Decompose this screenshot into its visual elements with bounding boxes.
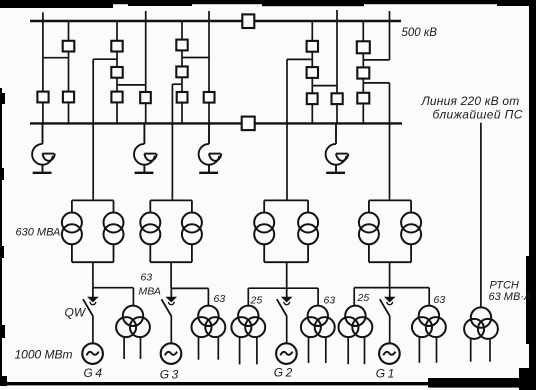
wire: T2 LV drop bbox=[286, 262, 288, 288]
transformer T1 group bbox=[359, 200, 421, 262]
breaker Q6 (col C bottom) bbox=[111, 92, 122, 103]
wire: col C seg3 bbox=[116, 78, 118, 92]
wire: col B to lower bus bbox=[68, 102, 70, 123]
wire: col C seg2 bbox=[116, 52, 118, 68]
generator G3 bbox=[161, 343, 182, 364]
wire: 220 kV line from nearest substation bbox=[480, 123, 482, 307]
transformer T3 group bbox=[140, 200, 202, 262]
switch QW of G2 bbox=[277, 299, 287, 316]
breaker Q12 (col G top) bbox=[307, 41, 318, 52]
breaker QB2 (lower bus tie) bbox=[242, 117, 255, 131]
wire: col G from upper bus bbox=[311, 21, 313, 41]
transformer T8 (63 MVA unit aux of G2) bbox=[301, 306, 335, 363]
breaker Q15 (col H) bbox=[332, 93, 343, 104]
wire: T3 HV feeder bbox=[171, 84, 173, 200]
svg-text:1000 МВт: 1000 МВт bbox=[15, 348, 73, 362]
wire: G1 stem bbox=[389, 316, 391, 343]
wire: G3 tap to aux transformer bbox=[171, 287, 208, 289]
transformer T10 (63 MVA unit aux of G1) bbox=[412, 306, 446, 363]
wire: col G to lower bus bbox=[311, 104, 313, 123]
wire: tie I-K at y60 bbox=[363, 59, 389, 61]
wire: col G seg3 bbox=[311, 78, 313, 93]
breaker Q16 (col I top) bbox=[357, 41, 370, 53]
wire: T2 HV feeder bbox=[286, 59, 288, 200]
wire: G3 stem bbox=[170, 316, 172, 343]
svg-text:Линия 220 кВ от: Линия 220 кВ от bbox=[421, 94, 520, 108]
transformer T5 (63 MVA unit aux of G4) bbox=[116, 306, 150, 359]
wire: col D to lower bus bbox=[145, 103, 147, 123]
svg-text:25: 25 bbox=[357, 292, 370, 304]
wire: tap to T3 from col E bbox=[172, 83, 182, 85]
wire: T4 HV feeder bbox=[92, 59, 94, 200]
wire: G2 taps to aux transformers bbox=[248, 287, 318, 289]
wire: tie A-B at y58 bbox=[43, 57, 69, 59]
wire: tap to T1 from col I bbox=[363, 82, 389, 84]
wire: col I from upper bus bbox=[362, 21, 364, 41]
transformer T7 (25 MVA unit aux of G2) bbox=[231, 306, 265, 365]
wire: col G seg2 bbox=[311, 52, 313, 67]
breaker Q4 (col C top) bbox=[111, 41, 122, 52]
transformer T9 (25 MVA unit aux of G1) bbox=[339, 306, 373, 365]
wire: G4 stem bbox=[92, 316, 94, 343]
transformer T6 (63 MVA unit aux of G3) bbox=[192, 306, 226, 360]
wire: T3 LV drop bbox=[170, 262, 172, 288]
breaker QB1 (upper bus tie) bbox=[242, 14, 254, 28]
breaker Q2 (col B bottom) bbox=[63, 92, 74, 103]
wire: aux T6 feeder drop bbox=[207, 288, 209, 305]
arrester F2 with ground bbox=[134, 123, 157, 172]
svg-text:ближайшей ПС: ближайшей ПС bbox=[433, 107, 523, 121]
wire: aux T5 feeder drop bbox=[132, 288, 134, 306]
svg-text:G4: G4 bbox=[84, 366, 105, 380]
wire: tap to T2 from col G bbox=[287, 58, 312, 60]
wire: col C from upper bus bbox=[116, 21, 118, 41]
svg-text:63: 63 bbox=[324, 294, 336, 306]
svg-text:63: 63 bbox=[141, 272, 153, 284]
transformer T4 group (2x630/2 MVA units) bbox=[62, 200, 124, 262]
node: G1 junction arrow bbox=[385, 288, 394, 305]
svg-text:63: 63 bbox=[434, 294, 446, 306]
breaker Q10 (col E bottom) bbox=[177, 92, 188, 103]
svg-text:G1: G1 bbox=[376, 367, 397, 381]
breaker Q18 (col I bottom) bbox=[357, 93, 369, 104]
generator G2 bbox=[276, 343, 297, 364]
svg-text:63 МВ·А: 63 МВ·А bbox=[489, 291, 532, 303]
wire: col E seg3 bbox=[181, 77, 183, 92]
wire: T1 HV feeder bbox=[389, 83, 391, 200]
wire: col A lower bbox=[42, 102, 44, 123]
svg-text:500 кВ: 500 кВ bbox=[402, 27, 438, 39]
wire: line L4 drop (col H) bbox=[336, 10, 338, 93]
node: G2 junction arrow bbox=[282, 288, 291, 305]
wire: col H to lower bus bbox=[336, 104, 338, 123]
svg-text:QW: QW bbox=[65, 306, 87, 320]
wire: tie E-F at y57 bbox=[182, 57, 209, 59]
wire: col I seg3 bbox=[362, 79, 364, 93]
wire: tie C-D at y85 bbox=[117, 84, 146, 86]
wire: T1 LV drop bbox=[389, 262, 391, 287]
breaker Q3 (col A) bbox=[37, 92, 48, 103]
breaker Q5 (col C mid) bbox=[111, 67, 122, 78]
node: G3 junction arrow bbox=[167, 288, 176, 304]
wire: upper 500 kV busbar W1 bbox=[30, 20, 401, 22]
wire: tap to T4 from col C bbox=[93, 58, 117, 60]
transformer T11 (RTSN 63 MVA reserve aux) bbox=[464, 307, 498, 361]
svg-text:G3: G3 bbox=[160, 367, 181, 381]
wire: col E seg2 bbox=[181, 50, 183, 66]
wire: col B from upper bus bbox=[68, 21, 70, 41]
wire: col E from upper bus bbox=[181, 21, 183, 40]
svg-text:25: 25 bbox=[250, 295, 263, 307]
wire: col B middle bbox=[68, 52, 70, 92]
wire: G2 stem bbox=[286, 316, 288, 343]
wire: line L2 drop (col D) bbox=[145, 11, 147, 92]
wire: tie G-H at y86 bbox=[312, 85, 337, 87]
wire: G1 taps to aux transformers bbox=[354, 287, 429, 289]
breaker Q17 (col I mid) bbox=[357, 67, 369, 78]
svg-text:МВА: МВА bbox=[139, 285, 161, 297]
switch QW of G4 bbox=[83, 299, 93, 316]
wire: aux T7 feeder drop bbox=[247, 288, 249, 306]
generator G1 bbox=[379, 343, 400, 364]
breaker Q13 (col G mid) bbox=[307, 67, 318, 78]
wire: line L5 drop (col K upper) bbox=[389, 11, 391, 60]
svg-text:G2: G2 bbox=[274, 366, 295, 380]
wire: col E to lower bus bbox=[181, 103, 183, 124]
switch QW of G3 bbox=[161, 299, 171, 316]
breaker Q14 (col G bottom) bbox=[307, 93, 318, 104]
breaker Q8 (col E top) bbox=[176, 40, 187, 51]
breaker Q9 (col E mid) bbox=[176, 67, 187, 78]
breaker Q7 (col D) bbox=[140, 92, 151, 103]
wire: lower 500 kV busbar W2 bbox=[30, 122, 402, 124]
svg-text:630 МВА: 630 МВА bbox=[16, 227, 61, 239]
wire: col I to lower bus bbox=[362, 104, 364, 124]
arrester F4 with ground bbox=[326, 123, 349, 172]
wire: col F to lower bus bbox=[208, 103, 210, 124]
wire: T4 LV drop bbox=[92, 262, 94, 288]
wire: aux T8 feeder drop bbox=[317, 288, 319, 306]
node: G4 junction arrow bbox=[88, 288, 97, 305]
wire: aux T9 feeder drop bbox=[353, 288, 355, 307]
transformer T2 group bbox=[254, 200, 318, 262]
wire: line L1 drop (col A upper) bbox=[42, 12, 44, 91]
svg-text:РТСН: РТСН bbox=[490, 279, 519, 291]
breaker Q1 (col B top) bbox=[63, 41, 75, 52]
wire: col C to lower bus bbox=[116, 102, 118, 123]
wire: G4 tap to aux transformer bbox=[93, 287, 133, 289]
svg-text:63: 63 bbox=[214, 293, 226, 305]
switch QW of G1 bbox=[380, 299, 390, 316]
breaker Q11 (col F) bbox=[204, 92, 215, 103]
generator G4 bbox=[82, 343, 103, 364]
wire: aux T10 feeder drop bbox=[428, 288, 430, 306]
arrester F3 with ground bbox=[199, 123, 222, 172]
wire: col I seg2 bbox=[362, 53, 364, 67]
arrester F1 with ground bbox=[32, 123, 55, 172]
wire: line L3 drop (col F) bbox=[208, 11, 210, 92]
